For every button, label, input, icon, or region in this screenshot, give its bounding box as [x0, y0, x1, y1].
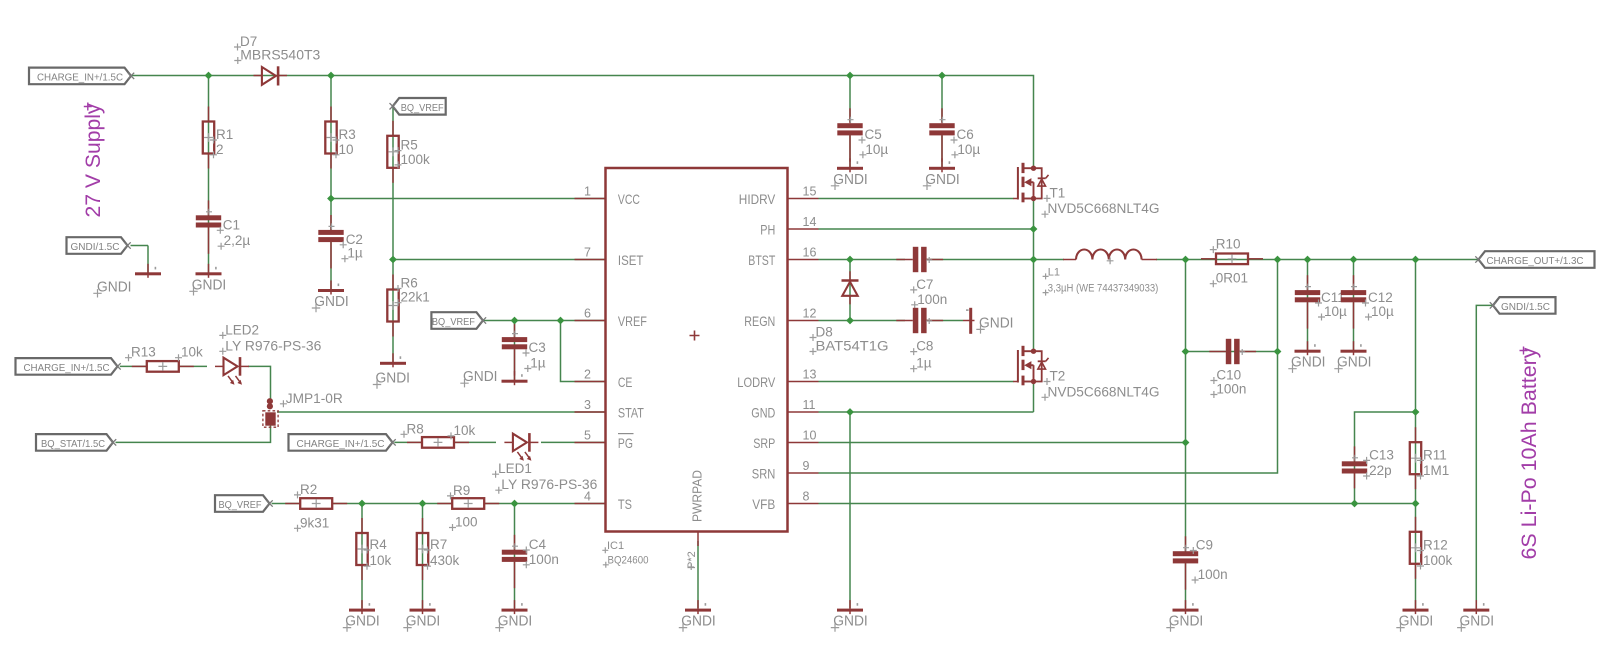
svg-text:0R01: 0R01 [1216, 271, 1248, 286]
svg-text:C7: C7 [916, 277, 933, 292]
ground GNDI (R12) [1396, 600, 1433, 632]
wire JMP1 to BQ_STAT flag [116, 426, 271, 443]
junction [1274, 256, 1282, 264]
junction [1182, 348, 1190, 356]
svg-text:5: 5 [584, 429, 591, 443]
svg-text:R1: R1 [216, 127, 233, 142]
capacitor C5 [837, 108, 888, 161]
svg-text:2: 2 [216, 142, 224, 157]
capacitor C3 [502, 322, 546, 375]
junction [846, 256, 854, 264]
wire R4 branch [361, 504, 363, 609]
svg-text:1M1: 1M1 [1423, 463, 1449, 478]
transistor T2 [1013, 346, 1159, 401]
wire C10 row [1186, 351, 1278, 353]
svg-text:15: 15 [803, 185, 817, 199]
junction [1030, 256, 1038, 264]
junction [419, 500, 427, 508]
resistor R12 [1410, 517, 1453, 579]
diode D7 MBRS540T3 [234, 34, 320, 86]
diode D8 [810, 271, 889, 355]
wire VREF net [483, 320, 605, 322]
svg-text:ISET: ISET [618, 252, 644, 268]
wire C13 branch [1355, 412, 1416, 504]
wire C6 to ground [941, 133, 943, 168]
ground GNDI (R4) [343, 600, 380, 632]
svg-text:R2: R2 [300, 482, 317, 497]
junction [938, 72, 946, 80]
svg-text:C9: C9 [1196, 538, 1213, 553]
junction [1412, 500, 1420, 508]
ground GNDI (C4) [495, 600, 532, 632]
svg-text:R4: R4 [370, 537, 388, 552]
svg-text:HIDRV: HIDRV [739, 191, 776, 207]
svg-text:100n: 100n [529, 552, 559, 567]
svg-text:REGN: REGN [744, 313, 775, 329]
svg-text:LY R976-PS-36: LY R976-PS-36 [501, 477, 597, 492]
svg-text:VFB: VFB [752, 496, 775, 512]
junction [1412, 256, 1420, 264]
svg-text:GNDI: GNDI [97, 278, 132, 295]
svg-text:BQ_VREF: BQ_VREF [401, 102, 444, 114]
junction [1304, 256, 1312, 264]
net flag BQ_VREF (R2) [215, 495, 273, 512]
wire C12 branch [1353, 260, 1355, 352]
svg-text:VCC: VCC [618, 191, 640, 207]
svg-text:7: 7 [584, 246, 591, 260]
junction [1182, 256, 1190, 264]
svg-text:C8: C8 [916, 339, 933, 354]
svg-text:R11: R11 [1423, 447, 1447, 462]
svg-text:R9: R9 [453, 483, 470, 498]
wire GNDI flag stub [131, 245, 149, 247]
svg-text:100: 100 [455, 515, 478, 530]
wire R3 branch [330, 76, 332, 232]
resistor R3 [325, 107, 355, 169]
wire CHARGE_IN to R8 [394, 441, 422, 443]
net flag CHARGE_OUT+/1.3C [1475, 251, 1594, 268]
svg-text:1µ: 1µ [347, 246, 363, 261]
svg-text:13: 13 [803, 368, 817, 382]
wire LED1 to PG pin [541, 441, 605, 443]
wire R11 column [1415, 260, 1417, 504]
wire LODRV net [819, 381, 1014, 383]
svg-text:CHARGE_IN+/1.5C: CHARGE_IN+/1.5C [297, 438, 385, 450]
wire SRN net [819, 260, 1278, 474]
svg-text:C1: C1 [223, 217, 240, 232]
svg-text:430k: 430k [430, 553, 460, 568]
svg-text:BTST: BTST [748, 252, 775, 268]
junction [511, 317, 519, 325]
svg-text:TS: TS [618, 496, 632, 512]
wire C6 branch [941, 76, 943, 123]
svg-text:1: 1 [584, 185, 591, 199]
svg-text:10k: 10k [181, 345, 203, 360]
net flag CHARGE_IN+/1.5C (R8) [289, 434, 396, 451]
svg-text:R7: R7 [430, 537, 447, 552]
svg-text:CHARGE_IN+/1.5C: CHARGE_IN+/1.5C [37, 72, 123, 84]
svg-text:T1: T1 [1050, 185, 1066, 200]
svg-text:6: 6 [584, 307, 591, 321]
net flag GNDI/1.5C (left) [67, 237, 131, 254]
wire PWRPAD to ground [697, 541, 699, 608]
resistor R2 [285, 482, 347, 532]
svg-text:STAT: STAT [618, 404, 644, 420]
svg-text:10µ: 10µ [1371, 304, 1394, 319]
wire SRP net [819, 442, 1186, 444]
svg-text:JMP1-0R: JMP1-0R [286, 391, 343, 406]
ground GNDI (C12) [1334, 341, 1371, 373]
junction [846, 408, 854, 416]
svg-text:LODRV: LODRV [737, 374, 776, 390]
resistor R6 [387, 275, 429, 337]
svg-text:BQ_VREF: BQ_VREF [432, 316, 475, 328]
wire R13 to LED2 [179, 365, 208, 367]
capacitor C8 [896, 308, 943, 372]
wire C9 to ground [1185, 562, 1187, 608]
svg-text:LED2: LED2 [225, 322, 259, 337]
net flag CHARGE_IN+/1.5C (top) [29, 68, 134, 85]
svg-text:PH: PH [760, 221, 775, 237]
svg-text:BQ_VREF: BQ_VREF [219, 499, 262, 511]
junction [1030, 225, 1038, 233]
wire VFB net [819, 503, 1416, 505]
wire REGN net [819, 320, 906, 322]
svg-text:R10: R10 [1216, 237, 1241, 252]
net flag CHARGE_IN+/1.5C (LED2) [16, 358, 121, 375]
svg-text:NVD5C668NLT4G: NVD5C668NLT4G [1048, 384, 1160, 399]
svg-text:SRP: SRP [753, 435, 775, 451]
svg-text:11: 11 [803, 398, 816, 412]
ground GNDI (pin 11) [831, 600, 868, 632]
resistor R10 [1201, 237, 1263, 288]
resistor R9 [437, 483, 499, 531]
junction [358, 500, 366, 508]
resistor R11 [1410, 427, 1449, 489]
svg-text:PWRPAD: PWRPAD [691, 470, 705, 522]
wire CHARGE_IN to R13 [120, 365, 147, 367]
junction [1182, 439, 1190, 447]
junction [846, 317, 854, 325]
svg-text:6S Li-Po 10Ah Battery: 6S Li-Po 10Ah Battery [1518, 347, 1541, 559]
svg-text:12: 12 [803, 307, 817, 321]
wire CE net [561, 321, 605, 382]
wire BQ_VREF R5 R6 branch [392, 107, 394, 363]
svg-text:1µ: 1µ [916, 356, 932, 371]
svg-text:CE: CE [618, 374, 633, 390]
ground GNDI (C11) [1288, 341, 1325, 373]
wire BTST net [819, 259, 906, 261]
junction [205, 72, 213, 80]
wire D8 branch [849, 260, 851, 321]
svg-text:IC1: IC1 [607, 540, 624, 552]
capacitor C12 [1341, 275, 1394, 328]
svg-text:10µ: 10µ [957, 142, 980, 157]
wire GND net pin11 [819, 411, 1034, 413]
svg-text:C10: C10 [1216, 368, 1241, 383]
wire PH net [819, 228, 1034, 230]
wire C7 to switch node [927, 259, 1034, 261]
svg-text:BAT54T1G: BAT54T1G [816, 339, 889, 354]
LED LED2 [215, 322, 321, 384]
svg-text:C12: C12 [1368, 290, 1393, 305]
resistor R5 [387, 121, 430, 183]
wire GNDI flag to ground [147, 246, 149, 273]
junction [1350, 256, 1358, 264]
capacitor C9 [1173, 536, 1228, 589]
ground GNDI (C2) [312, 281, 349, 313]
wire C8 to ground [927, 320, 964, 322]
wire C4 branch [514, 504, 516, 609]
junction [389, 256, 397, 264]
annotation 27 V Supply [82, 103, 105, 218]
wire BQ_VREF to R2 [272, 503, 300, 505]
svg-text:10µ: 10µ [865, 142, 888, 157]
svg-text:10: 10 [339, 142, 354, 157]
ground GNDI (C3) [460, 368, 527, 387]
capacitor C1 [196, 200, 251, 253]
ground GNDI (C8/REGN) [963, 308, 1014, 334]
wire output sense branch [1185, 260, 1187, 553]
svg-text:R6: R6 [401, 276, 418, 291]
svg-text:LY R976-PS-36: LY R976-PS-36 [225, 338, 321, 353]
svg-text:10k: 10k [454, 423, 476, 438]
ground GNDI (supply flag) [93, 264, 161, 298]
svg-text:R5: R5 [401, 138, 418, 153]
svg-text:SRN: SRN [752, 465, 776, 481]
ground GNDI (C1) [189, 264, 226, 296]
svg-text:GND: GND [751, 404, 775, 420]
svg-text:10µ: 10µ [1324, 304, 1347, 319]
jumper JMP1 [263, 391, 343, 427]
svg-text:BQ_STAT/1.5C: BQ_STAT/1.5C [41, 438, 105, 450]
ground GNDI (C5) [831, 158, 868, 190]
capacitor C2 [318, 215, 363, 268]
wire C5 branch [849, 76, 851, 123]
resistor R4 [356, 518, 391, 580]
ground GNDI (C9) [1166, 600, 1203, 632]
wire C3 branch [514, 321, 516, 381]
svg-text:T2: T2 [1050, 369, 1066, 384]
junction [1274, 348, 1282, 356]
svg-text:2,2µ: 2,2µ [224, 233, 251, 248]
svg-text:CHARGE_IN+/1.5C: CHARGE_IN+/1.5C [24, 362, 110, 374]
capacitor C6 [929, 108, 980, 161]
svg-text:C13: C13 [1369, 447, 1394, 462]
resistor R1 [203, 107, 233, 169]
svg-text:BQ24600: BQ24600 [608, 555, 649, 567]
wire battery ground [1476, 305, 1493, 608]
annotation 6S Li-Po 10Ah Battery [1518, 347, 1541, 560]
svg-text:GNDI/1.5C: GNDI/1.5C [1501, 301, 1550, 313]
wire LED2 to JMP1 [248, 366, 271, 399]
transistor T1 [1013, 163, 1159, 218]
capacitor C11 [1295, 275, 1347, 328]
wire R8 to LED1 [454, 441, 497, 443]
net flag BQ_STAT/1.5C [36, 434, 116, 451]
wire VCC net [331, 198, 605, 200]
svg-text:CHARGE_OUT+/1.3C: CHARGE_OUT+/1.3C [1487, 255, 1584, 267]
junction [1351, 500, 1359, 508]
svg-text:100n: 100n [917, 292, 947, 307]
net flag BQ_VREF (VREF pin) [431, 312, 486, 329]
svg-text:27 V Supply: 27 V Supply [82, 103, 105, 217]
inductor L1 L1 [1043, 249, 1159, 295]
capacitor C4 [502, 535, 559, 588]
svg-text:3,3µH (WE 74437349033): 3,3µH (WE 74437349033) [1048, 283, 1159, 295]
svg-text:P*2: P*2 [686, 551, 698, 569]
wire ISET net [393, 259, 605, 261]
capacitor C13 [1342, 446, 1394, 488]
wire C2 to ground [330, 242, 332, 290]
svg-text:D8: D8 [816, 325, 833, 340]
svg-text:1µ: 1µ [530, 356, 546, 371]
ground GNDI (R6) [373, 353, 410, 388]
svg-text:14: 14 [803, 215, 817, 229]
svg-text:100n: 100n [1198, 567, 1228, 582]
resistor R13 [125, 345, 203, 372]
wire STAT net [277, 411, 605, 413]
wire switch node vertical [1033, 199, 1035, 352]
svg-text:100n: 100n [1216, 382, 1246, 397]
svg-text:MBRS540T3: MBRS540T3 [240, 48, 320, 63]
wire R9 to TS pin [485, 503, 605, 505]
capacitor C7 [896, 247, 947, 308]
svg-text:C2: C2 [346, 232, 363, 247]
junction [846, 72, 854, 80]
wire R1 branch [208, 76, 210, 273]
junction [327, 195, 335, 203]
op-amp/IC U1 IC1 BQ24600 [575, 168, 819, 570]
capacitor C10 [1209, 339, 1256, 398]
svg-text:100k: 100k [1423, 553, 1453, 568]
svg-text:10k: 10k [370, 553, 392, 568]
junction [557, 317, 565, 325]
wire R7 branch [422, 504, 424, 609]
wire HIDRV net [819, 198, 1014, 200]
wire T2 source to GND net [1033, 382, 1035, 413]
net flag BQ_VREF (R5) [390, 98, 446, 115]
svg-text:R12: R12 [1423, 538, 1448, 553]
svg-text:C3: C3 [529, 340, 546, 355]
svg-text:10: 10 [803, 429, 817, 443]
resistor R8 [401, 421, 476, 447]
svg-text:16: 16 [803, 246, 817, 260]
wire R12 branch [1415, 504, 1417, 609]
junction [1412, 408, 1420, 416]
svg-text:2: 2 [584, 368, 591, 382]
wire L1 to CHARGE_OUT rail [1156, 259, 1479, 261]
svg-text:8: 8 [803, 490, 810, 504]
ground GNDI (R7) [403, 600, 440, 632]
svg-text:R8: R8 [407, 421, 424, 436]
svg-text:PG: PG [618, 435, 633, 451]
svg-text:C6: C6 [957, 127, 974, 142]
ground GNDI (C6) [923, 158, 960, 190]
svg-text:C4: C4 [529, 537, 547, 552]
svg-text:NVD5C668NLT4G: NVD5C668NLT4G [1048, 201, 1160, 216]
ground GNDI (battery) [1457, 600, 1494, 632]
svg-text:GNDI/1.5C: GNDI/1.5C [71, 241, 120, 253]
svg-text:R3: R3 [339, 127, 356, 142]
svg-text:VREF: VREF [618, 313, 647, 329]
svg-text:22p: 22p [1369, 463, 1392, 478]
wire R2 to R9 (TS net) [333, 503, 452, 505]
LED LED1 [492, 433, 597, 494]
svg-text:100k: 100k [401, 152, 431, 167]
wire C5 to ground [849, 133, 851, 168]
svg-text:R13: R13 [131, 345, 156, 360]
wire CHARGE_IN+ top rail [131, 76, 1034, 169]
svg-text:4: 4 [584, 490, 591, 504]
svg-text:3: 3 [584, 398, 591, 412]
junction [511, 500, 519, 508]
net flag GNDI/1.5C (battery) [1490, 297, 1556, 314]
wire C11 branch [1307, 260, 1309, 352]
svg-text:C5: C5 [865, 127, 882, 142]
svg-text:LED1: LED1 [498, 461, 532, 476]
svg-text:L1: L1 [1048, 266, 1060, 278]
resistor R7 [417, 518, 460, 580]
junction [327, 72, 335, 80]
svg-text:9k31: 9k31 [300, 515, 329, 530]
wire switch node to L1 [1034, 259, 1065, 261]
svg-text:22k1: 22k1 [401, 290, 430, 305]
ground GNDI (PWRPAD) [679, 600, 716, 632]
wire GND branch to ground [849, 412, 851, 608]
svg-text:9: 9 [803, 459, 810, 473]
